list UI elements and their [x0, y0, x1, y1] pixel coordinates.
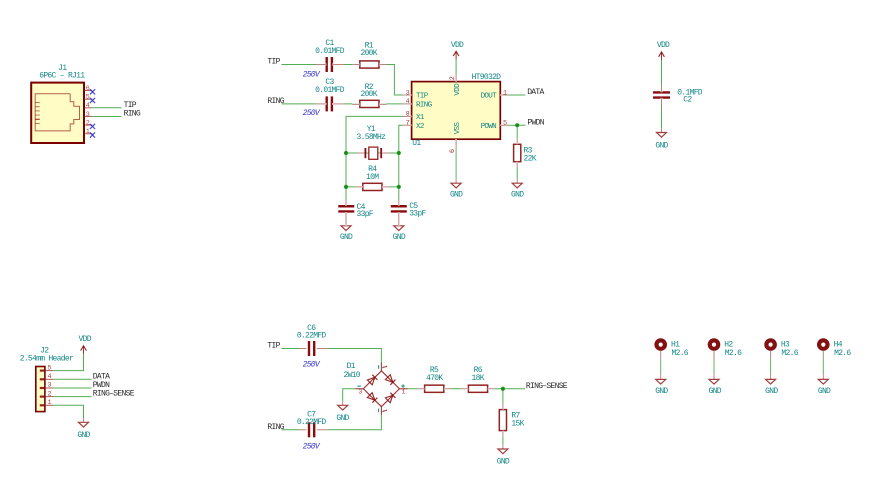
R5 pin stubs — [417, 388, 424, 390]
J1 pin 5 no-connect X — [90, 98, 95, 103]
svg-text:0.01MFD: 0.01MFD — [315, 47, 345, 56]
svg-text:4: 4 — [47, 373, 51, 381]
svg-text:3: 3 — [86, 111, 90, 119]
wire TIP to C6 — [282, 348, 307, 350]
svg-text:250V: 250V — [303, 70, 321, 79]
svg-text:5: 5 — [86, 93, 90, 101]
wire U1 DOUT to DATA label — [508, 94, 525, 96]
wire H2 to ground — [713, 351, 715, 359]
wire J2 pin3 to PWDN label — [53, 387, 91, 389]
J1 pin 3 stub — [84, 115, 92, 117]
svg-text:PWDN: PWDN — [527, 118, 544, 127]
J2 pin 1 contact — [40, 404, 44, 406]
wire crystal row — [346, 152, 399, 154]
wire J2 pin4 to DATA label — [53, 378, 91, 380]
svg-text:M2.6: M2.6 — [781, 349, 798, 358]
ground below C5 — [398, 222, 400, 226]
op-amp U1 HT9032D body — [412, 82, 501, 140]
wire right rail to C5 — [398, 187, 400, 204]
svg-text:GND: GND — [336, 414, 349, 423]
J1 pin 2 no-connect X — [90, 124, 95, 129]
svg-text:3.58MHz: 3.58MHz — [357, 133, 387, 142]
ground at bridge minus — [342, 401, 344, 405]
wire C6 to bridge AC1 — [317, 349, 382, 364]
node junction right rail R4 — [397, 185, 401, 189]
ground below H4 — [822, 375, 824, 379]
svg-text:VDD: VDD — [657, 41, 670, 50]
resistor R3 — [514, 144, 521, 161]
svg-text:GND: GND — [511, 190, 524, 199]
connector J2 body — [36, 367, 45, 412]
svg-text:VSS: VSS — [454, 122, 462, 135]
svg-text:GND: GND — [340, 233, 353, 242]
wire TIP to C1 — [282, 64, 325, 66]
U1 pin 8 stub — [403, 115, 411, 117]
svg-text:1: 1 — [47, 399, 51, 407]
ground below R7 — [502, 445, 504, 449]
svg-text:250V: 250V — [303, 442, 321, 451]
R7 pin stubs — [502, 404, 504, 410]
ground below H2 — [713, 375, 715, 379]
svg-text:2.54mm Header: 2.54mm Header — [20, 355, 74, 364]
svg-text:GND: GND — [655, 141, 668, 150]
D1 diode lower-right — [385, 393, 395, 403]
wire R1 to U1 pin 3 — [379, 65, 404, 96]
capacitor C6 — [308, 341, 310, 356]
J1 pin 2 stub — [84, 124, 92, 126]
svg-text:M2.6: M2.6 — [834, 349, 851, 358]
ground below C4 — [345, 222, 347, 226]
svg-text:DOUT: DOUT — [481, 93, 498, 101]
svg-text:2W10: 2W10 — [343, 371, 360, 380]
svg-text:3: 3 — [47, 382, 51, 390]
svg-text:POWN: POWN — [481, 123, 497, 131]
wire H4 to ground — [822, 351, 824, 359]
node junction left rail R4 — [344, 185, 348, 189]
J2 pin 3 stub — [45, 387, 53, 389]
J2 pin 5 contact — [40, 370, 44, 372]
wire H1 to ground — [660, 351, 662, 359]
svg-text:GND: GND — [818, 387, 831, 396]
wire junction to R3 — [516, 125, 518, 144]
C5 pin stubs — [398, 200, 400, 206]
wire C2 to ground — [661, 100, 663, 132]
svg-text:X2: X2 — [416, 123, 425, 131]
J1 pin 5 stub — [84, 98, 92, 100]
wire C1 to R1 — [335, 64, 360, 66]
wire R3 to ground — [516, 162, 518, 184]
svg-text:VDD: VDD — [454, 83, 462, 96]
mounting hole H1 — [654, 338, 667, 351]
R6 pin stubs — [461, 388, 468, 390]
wire left rail crystal to R4 — [345, 153, 347, 187]
J2 pin 5 stub — [45, 370, 53, 372]
R2 pin stubs — [352, 103, 359, 105]
svg-text:GND: GND — [765, 387, 778, 396]
wire J2 pin2 to RING-SENSE label — [53, 396, 91, 398]
svg-text:18K: 18K — [472, 374, 485, 383]
svg-text:RING: RING — [267, 97, 284, 106]
wire J2 pin5 to VDD — [53, 353, 83, 370]
wire VDD to C2 — [661, 60, 663, 90]
svg-text:3: 3 — [406, 89, 410, 97]
U1 pin 5 stub — [500, 124, 508, 126]
U1 pin 1 stub — [500, 94, 508, 96]
ground below H1 — [660, 375, 662, 379]
wire R7 to ground — [502, 431, 504, 449]
U1 pin 2 stub — [455, 74, 457, 82]
C2 pin stubs — [661, 85, 663, 92]
svg-text:GND: GND — [77, 431, 90, 440]
C3 pin stubs — [317, 103, 327, 105]
node junction left rail crystal — [344, 151, 348, 155]
wire C3 to R2 — [335, 103, 360, 105]
svg-text:DATA: DATA — [93, 372, 110, 381]
svg-text:X1: X1 — [416, 114, 425, 122]
wire U1 pin 6 to ground — [455, 147, 457, 183]
wire R4 row — [346, 186, 399, 188]
svg-text:7: 7 — [406, 120, 410, 128]
svg-text:250V: 250V — [303, 109, 321, 118]
svg-text:4: 4 — [86, 102, 90, 110]
D1 diode upper-right — [385, 375, 395, 385]
svg-text:250V: 250V — [303, 360, 321, 369]
node junction at R7 top — [501, 387, 505, 391]
D1 pin 4 stub bottom — [380, 407, 382, 415]
wire J1 pin3 to RING label — [92, 115, 121, 117]
svg-text:D1: D1 — [347, 362, 356, 371]
U1 pin 4 stub — [403, 103, 411, 105]
C4 pin stubs — [345, 200, 347, 206]
J1 pin 1 stub — [84, 133, 92, 135]
capacitor C4 — [338, 205, 354, 207]
D1 diode lower-left — [367, 393, 377, 403]
svg-text:2: 2 — [47, 390, 51, 398]
svg-text:GND: GND — [655, 387, 668, 396]
wire RING to C7 — [282, 429, 307, 431]
ground below J2 pin1 — [83, 418, 85, 422]
crystal Y1 — [364, 148, 366, 158]
ground below C2 — [661, 128, 663, 132]
mounting hole H4 — [817, 338, 830, 351]
J1 pin 4 stub — [84, 107, 92, 109]
svg-text:TIP: TIP — [416, 93, 429, 101]
wire left rail to C4 — [345, 187, 347, 204]
svg-text:4: 4 — [406, 98, 410, 106]
D1 pin 2 stub top — [380, 363, 382, 371]
capacitor C3 — [326, 96, 328, 111]
wire J2 pin1 to ground — [53, 405, 83, 422]
U1 pin 6 stub — [455, 139, 457, 147]
capacitor C2 — [653, 91, 670, 93]
wire C7 to bridge AC2 — [317, 415, 382, 430]
svg-text:15K: 15K — [511, 419, 524, 428]
bridge rectifier D1 diamond — [363, 371, 399, 407]
svg-text:RING–SENSE: RING–SENSE — [93, 390, 135, 399]
svg-text:3: 3 — [358, 388, 362, 396]
svg-text:200K: 200K — [360, 49, 377, 58]
D1 pin number 4 mark bottom — [383, 410, 387, 412]
U1 pin 3 stub — [403, 94, 411, 96]
ground below R3 — [516, 179, 518, 183]
svg-text:1: 1 — [402, 388, 406, 396]
wire junction to R7 — [502, 389, 504, 410]
resistor R7 — [499, 410, 506, 431]
resistor R4 — [363, 183, 382, 190]
capacitor C5 — [391, 205, 407, 207]
resistor R2 — [360, 100, 379, 107]
svg-text:22K: 22K — [524, 154, 537, 163]
U1 pin 7 stub — [403, 124, 411, 126]
svg-text:0.01MFD: 0.01MFD — [315, 86, 345, 95]
R3 pin stubs — [516, 139, 518, 145]
svg-text:10M: 10M — [366, 173, 379, 182]
node junction at R3 top — [515, 123, 519, 127]
capacitor C7 — [308, 422, 310, 437]
connector J1 body — [31, 83, 84, 143]
C6 pin stubs — [300, 348, 306, 350]
wire bridge minus to ground — [343, 389, 356, 406]
wire RING to C3 — [282, 103, 325, 105]
node junction right rail crystal — [397, 151, 401, 155]
J2 pin 4 contact — [40, 378, 44, 380]
svg-text:M2.6: M2.6 — [725, 349, 742, 358]
wire C5 to ground — [398, 214, 400, 226]
J2 pin 2 contact — [40, 396, 44, 398]
resistor R1 — [360, 61, 379, 68]
connector J1 jack contacts — [35, 102, 40, 104]
svg-text:6: 6 — [86, 85, 90, 93]
resistor R5 — [425, 385, 444, 392]
J1 pin 1 no-connect X — [90, 132, 95, 137]
resistor R6 — [468, 385, 487, 392]
svg-text:C2: C2 — [683, 96, 692, 105]
svg-text:RING: RING — [416, 102, 433, 110]
wire R5 to R6 — [444, 388, 469, 390]
J1 pin 6 stub — [84, 90, 92, 92]
connector J1 jack outline — [35, 94, 79, 131]
D1 pin 1 stub right — [399, 388, 407, 390]
ground below U1 — [455, 179, 457, 183]
mounting hole H2 — [708, 338, 721, 351]
wire U1 X2 to right rail — [399, 125, 404, 153]
svg-text:TIP: TIP — [267, 342, 280, 351]
J2 pin 1 stub — [45, 404, 53, 406]
svg-text:0.22MFD: 0.22MFD — [297, 418, 327, 427]
C7 pin stubs — [300, 429, 306, 431]
D1 pin name ~ tick bottom — [378, 409, 380, 413]
D1 pin name + (plus) — [401, 384, 404, 387]
C1 pin stubs — [317, 64, 327, 66]
svg-text:RING: RING — [124, 110, 141, 119]
svg-text:33pF: 33pF — [357, 210, 374, 219]
D1 pin name ~ tick top — [378, 365, 380, 369]
svg-text:200K: 200K — [360, 90, 377, 99]
J2 pin 2 stub — [45, 396, 53, 398]
D1 pin number 2 mark top — [383, 366, 387, 368]
svg-text:470K: 470K — [426, 374, 443, 383]
svg-text:1: 1 — [86, 128, 90, 136]
svg-text:HT9032D: HT9032D — [472, 73, 502, 82]
svg-text:GND: GND — [709, 387, 722, 396]
wire R2 to U1 pin 4 — [379, 103, 412, 105]
wire U1 X1 to left rail — [346, 116, 403, 153]
svg-text:2: 2 — [86, 119, 90, 127]
D1 pin 3 stub left — [355, 388, 363, 390]
wire VDD to U1 pin 2 — [455, 59, 457, 74]
svg-text:M2.6: M2.6 — [672, 349, 689, 358]
wire J1 pin4 to TIP label — [92, 107, 121, 109]
svg-text:GND: GND — [450, 190, 463, 199]
wire U1 POWN to PWDN label — [508, 124, 525, 126]
svg-text:6P6C – RJ11: 6P6C – RJ11 — [39, 72, 85, 81]
wire C4 to ground — [345, 214, 347, 226]
Y1 pin stubs — [357, 152, 365, 154]
wire right rail crystal to R4 — [398, 153, 400, 187]
svg-text:TIP: TIP — [267, 58, 280, 67]
svg-text:GND: GND — [393, 233, 406, 242]
ground below H3 — [770, 375, 772, 379]
svg-text:VDD: VDD — [79, 335, 92, 344]
svg-text:DATA: DATA — [527, 88, 544, 97]
svg-text:RING–SENSE: RING–SENSE — [526, 382, 568, 391]
mounting hole H3 — [764, 338, 777, 351]
svg-text:TIP: TIP — [124, 101, 137, 110]
svg-text:0.22MFD: 0.22MFD — [297, 332, 327, 341]
svg-text:VDD: VDD — [451, 41, 464, 50]
svg-text:5: 5 — [47, 364, 51, 372]
wire R6 to RING-SENSE label — [488, 388, 525, 390]
svg-text:2: 2 — [449, 76, 457, 80]
D1 pin name - (minus) — [357, 385, 361, 387]
R4 pin stubs — [356, 186, 363, 188]
svg-text:5: 5 — [503, 120, 507, 128]
svg-text:U1: U1 — [412, 139, 421, 148]
svg-text:GND: GND — [497, 458, 510, 467]
svg-text:RING: RING — [267, 423, 284, 432]
wire H3 to ground — [770, 351, 772, 359]
J2 pin 4 stub — [45, 378, 53, 380]
D1 diode upper-left — [367, 375, 377, 385]
svg-text:8: 8 — [406, 111, 410, 119]
capacitor C1 — [326, 57, 328, 72]
J2 pin 3 contact — [40, 387, 44, 389]
R1 pin stubs — [352, 64, 359, 66]
svg-text:1: 1 — [503, 89, 507, 97]
wire bridge plus to R5 — [407, 388, 424, 390]
svg-text:33pF: 33pF — [409, 210, 426, 219]
J1 pin 6 no-connect X — [90, 89, 95, 94]
